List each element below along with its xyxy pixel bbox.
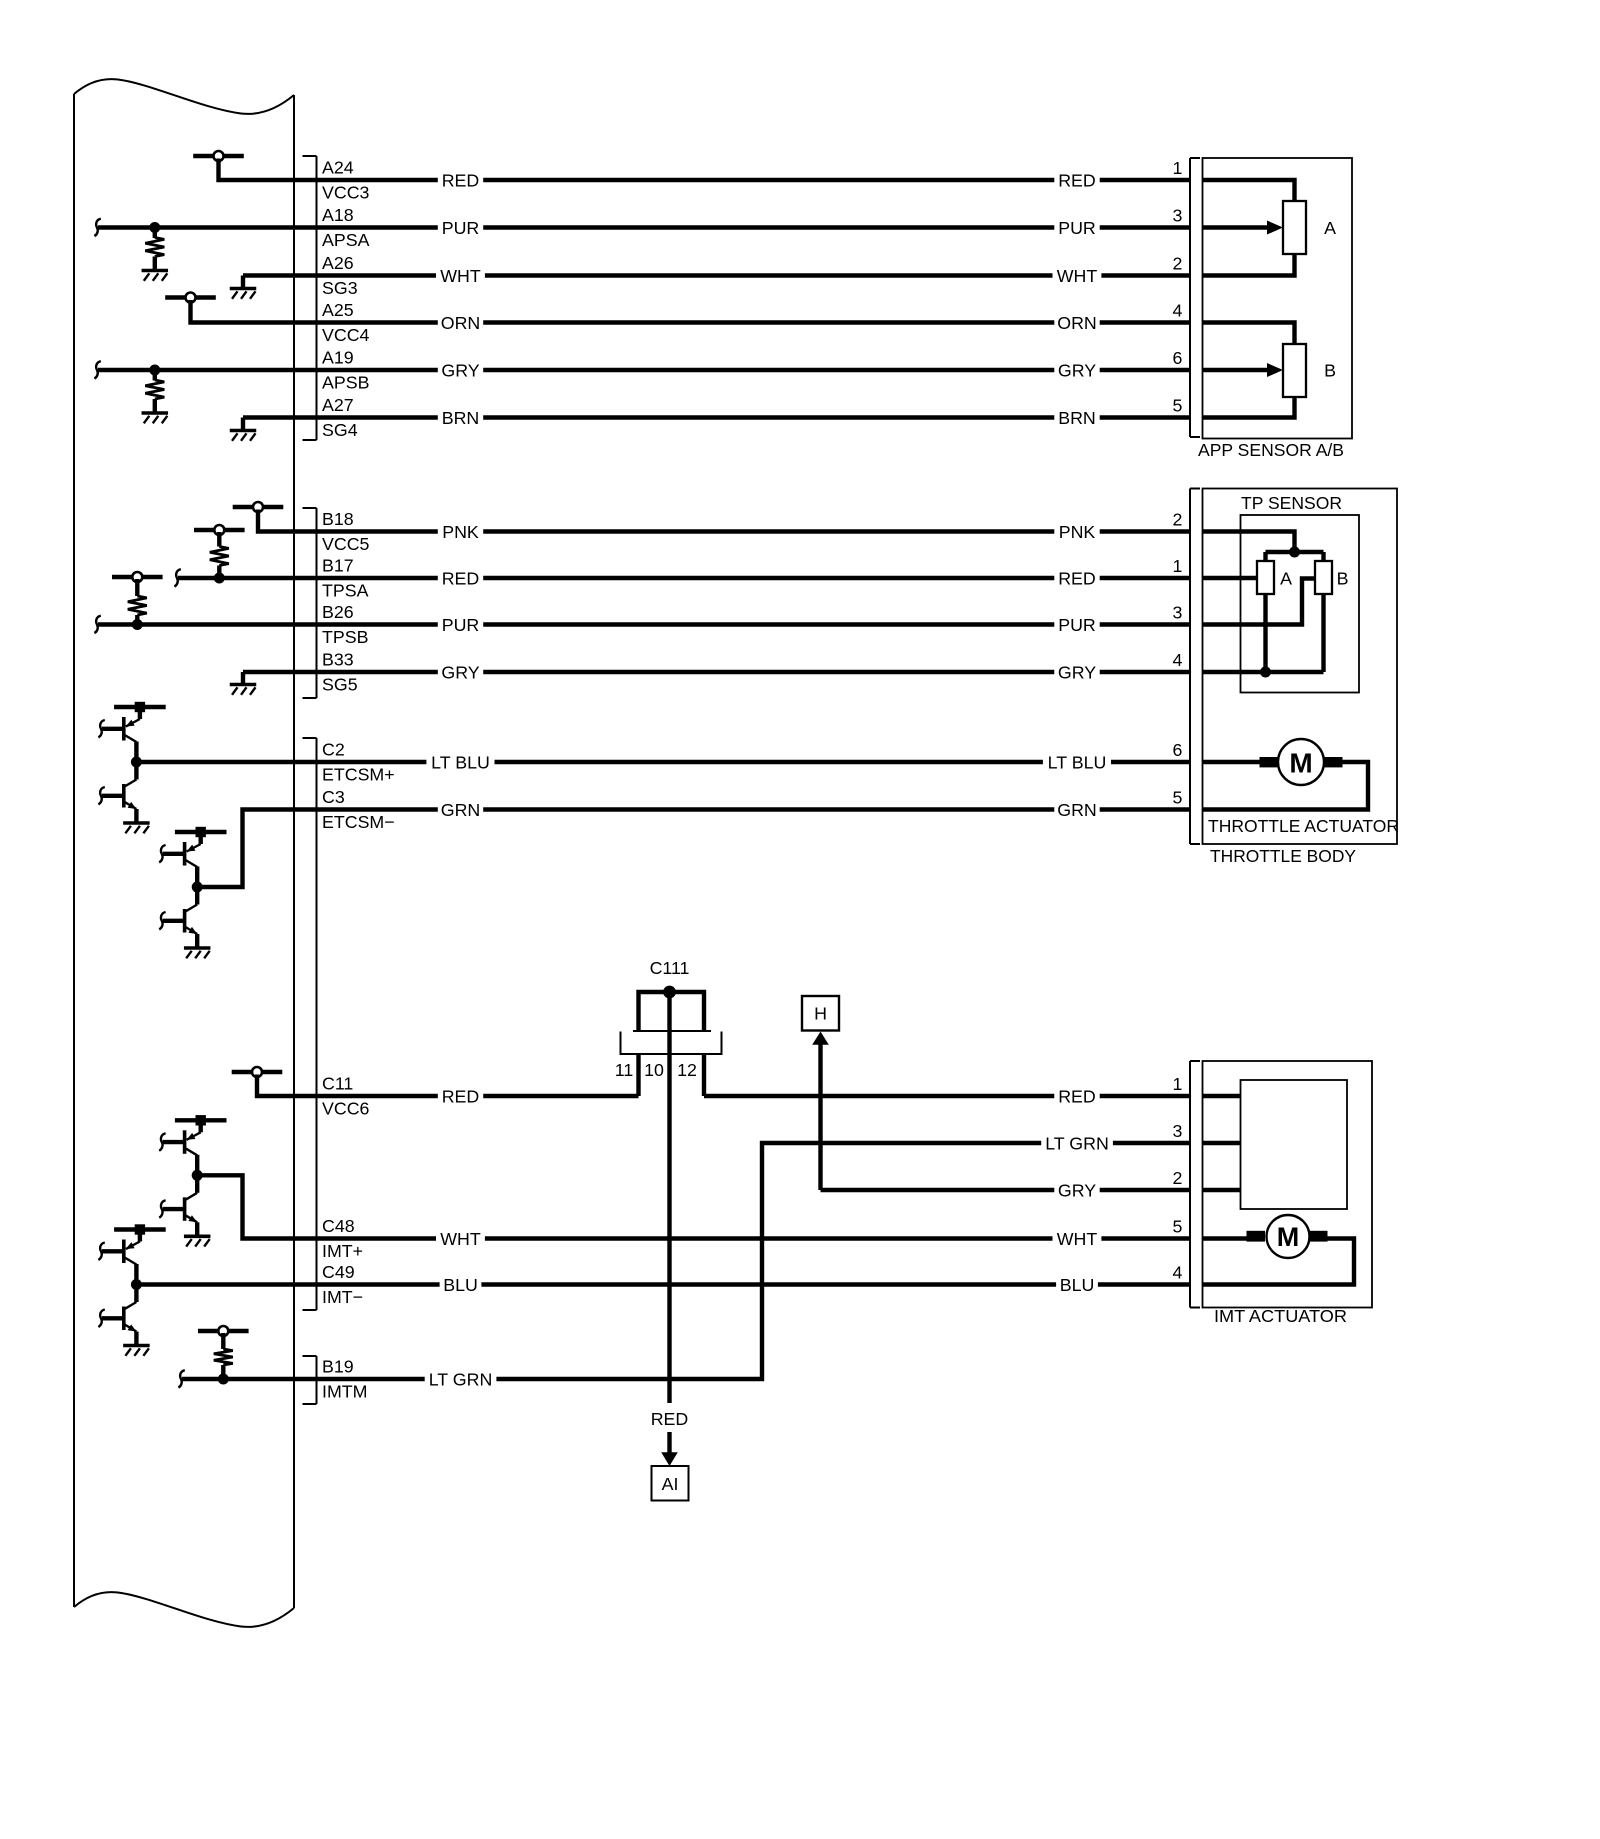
wire colour label BRN (left) <box>438 408 483 427</box>
RED wire, C111 pin 12 to IMT actuator <box>704 1094 1190 1098</box>
svg-text:4: 4 <box>1173 1263 1183 1283</box>
ECM connector A bracket <box>316 156 318 440</box>
svg-text:APSB: APSB <box>322 373 369 393</box>
svg-text:2: 2 <box>1173 254 1183 274</box>
stub from potentiometer B bottom <box>1321 593 1325 672</box>
BRN wire, ECM to APP sensor <box>294 415 1190 419</box>
svg-text:RED: RED <box>1058 568 1096 588</box>
base wire of Q3 <box>163 852 185 856</box>
svg-text:B19: B19 <box>322 1357 354 1377</box>
svg-text:VCC6: VCC6 <box>322 1099 370 1119</box>
svg-text:ETCSM+: ETCSM+ <box>322 765 395 785</box>
svg-text:VCC5: VCC5 <box>322 534 370 554</box>
wire colour label PUR (left) <box>438 615 483 634</box>
svg-text:LT GRN: LT GRN <box>1045 1133 1109 1153</box>
junction dot APSB <box>149 365 160 376</box>
svg-text:5: 5 <box>1173 788 1183 808</box>
svg-text:H: H <box>814 1004 827 1024</box>
wire colour label PUR (left) <box>438 218 483 237</box>
collector stem Q7 <box>134 1264 138 1285</box>
stub pin 3 <box>1203 1141 1241 1145</box>
svg-text:3: 3 <box>1173 206 1183 226</box>
svg-text:BRN: BRN <box>1058 408 1096 428</box>
PUR wire to TP wiper B <box>1203 579 1316 625</box>
junction dot TP top bus <box>1289 547 1300 558</box>
wire-break symbol TPSB <box>94 616 100 633</box>
svg-text:B: B <box>1324 361 1336 381</box>
wire colour label LT GRN (right) <box>1041 1134 1113 1153</box>
SG4 ground symbol <box>230 429 257 433</box>
svg-text:THROTTLE ACTUATOR: THROTTLE ACTUATOR <box>1208 816 1399 836</box>
ECM connector C bracket <box>316 738 318 1310</box>
base wire of Q6 <box>163 1207 185 1211</box>
svg-text:GRY: GRY <box>1058 662 1096 682</box>
PNK wire, ECM to TP sensor <box>294 529 1190 533</box>
RED wire, ECM to TP sensor <box>294 576 1190 580</box>
svg-text:WHT: WHT <box>440 266 481 286</box>
svg-text:APSA: APSA <box>322 230 370 250</box>
GRY wire to IMT actuator pin 2 <box>821 1188 1191 1192</box>
svg-text:ORN: ORN <box>1057 313 1097 333</box>
VCC pull-up for IMTM power symbol <box>198 1329 249 1333</box>
IMT- wire from driver to pin C49 <box>136 1282 294 1286</box>
svg-text:VCC3: VCC3 <box>322 183 370 203</box>
LT GRN wire, ECM B19 to IMT actuator pin 3 <box>294 1143 1190 1379</box>
svg-text:LT GRN: LT GRN <box>429 1369 493 1389</box>
junction dot IMTM <box>218 1374 229 1385</box>
wire pin4 to potentiometer B top <box>1203 323 1295 346</box>
wire colour label ORN (right) <box>1054 313 1099 332</box>
svg-text:1: 1 <box>1173 158 1183 178</box>
wire colour label ORN (left) <box>438 313 483 332</box>
ground of Q8 <box>123 1344 149 1348</box>
C111 pin 10 wire (down to AI) <box>667 992 671 1403</box>
GRN wire, ETCSM- to throttle actuator <box>294 807 1190 811</box>
base wire of Q1 <box>102 727 124 731</box>
junction dot (ETCSM-) <box>192 882 203 893</box>
VCC6 feed wire to pin C11 <box>257 1075 294 1097</box>
ground of Q4 <box>184 946 211 950</box>
svg-text:RED: RED <box>442 568 480 588</box>
collector stem Q1 <box>134 742 138 763</box>
svg-text:RED: RED <box>1058 1086 1096 1106</box>
IMT+ wire from driver to pin C48 <box>197 1175 294 1238</box>
wire-break symbol APSB <box>94 361 100 378</box>
SG3 ground symbol <box>230 287 257 291</box>
R2 top stem <box>153 370 157 381</box>
transistor Q1 (PNP, high side) <box>138 707 142 719</box>
wire colour label GRN (left) <box>438 800 483 819</box>
wire colour label GRY (right) <box>1054 1181 1099 1200</box>
wire colour label PUR (right) <box>1054 218 1099 237</box>
svg-text:IMTM: IMTM <box>322 1382 367 1402</box>
emitter stem Q8 <box>134 1332 138 1346</box>
svg-text:2: 2 <box>1173 510 1183 530</box>
pull-up resistor R3 (TPSA) <box>210 547 229 566</box>
transistor Q2 (NPN, low side) <box>134 762 138 780</box>
junction dot (ETCSM+) <box>131 757 142 768</box>
svg-text:VCC4: VCC4 <box>322 325 370 345</box>
svg-text:RED: RED <box>442 1086 480 1106</box>
stub pin 2 <box>1203 1188 1241 1192</box>
wire colour label RED (right) <box>1054 569 1099 588</box>
svg-text:THROTTLE BODY: THROTTLE BODY <box>1210 846 1356 866</box>
wire-break symbol IMTM <box>178 1370 184 1387</box>
B+ square (ETCSM+) <box>135 702 145 712</box>
svg-text:12: 12 <box>677 1060 697 1080</box>
svg-text:B33: B33 <box>322 650 354 670</box>
svg-text:M: M <box>1289 748 1312 779</box>
IMT actuator connector bracket <box>1189 1061 1191 1308</box>
throttle body connector bracket <box>1189 489 1191 845</box>
VCC4 feed wire to pin A25 <box>191 300 295 323</box>
IMTM input wire (ECM internal) <box>182 1377 294 1381</box>
pull-up resistor R4 (TPSB) <box>128 596 147 615</box>
stub to potentiometer A top <box>1263 552 1267 562</box>
wire colour label GRY (left) <box>438 663 483 682</box>
wire colour label RED (right) <box>1054 1087 1099 1106</box>
VCC6 power symbol <box>232 1070 283 1074</box>
LT BLU wire, ETCSM+ to throttle actuator <box>294 760 1190 764</box>
svg-text:A: A <box>1280 569 1292 589</box>
pull-up resistor R5 (IMTM) <box>214 1349 233 1365</box>
svg-text:GRY: GRY <box>441 662 479 682</box>
arrow down to AI <box>667 1432 671 1453</box>
svg-text:1: 1 <box>1173 1074 1183 1094</box>
svg-text:IMT+: IMT+ <box>322 1241 363 1261</box>
junction dot TPSB <box>132 619 143 630</box>
RED wire, ECM to APP sensor <box>294 178 1190 182</box>
svg-text:LT BLU: LT BLU <box>1048 752 1107 772</box>
wire colour label LT GRN (left) <box>425 1370 497 1389</box>
SG5 ground symbol <box>230 683 257 687</box>
IMT actuator control block <box>1241 1080 1348 1209</box>
svg-text:IMT ACTUATOR: IMT ACTUATOR <box>1214 1306 1347 1326</box>
svg-text:1: 1 <box>1173 556 1183 576</box>
wire colour label WHT (right) <box>1053 1229 1102 1248</box>
junction dot TPSA <box>214 573 225 584</box>
svg-text:PUR: PUR <box>442 218 480 238</box>
WHT wire, ECM C48 to IMT actuator <box>294 1236 1190 1240</box>
svg-text:B26: B26 <box>322 602 354 622</box>
svg-text:BRN: BRN <box>442 408 480 428</box>
svg-text:RED: RED <box>651 1409 689 1429</box>
svg-text:RED: RED <box>1058 170 1096 190</box>
transistor Q7 (PNP, high side) <box>138 1230 142 1242</box>
wire pin2 to potentiometer A bottom <box>1203 253 1295 276</box>
svg-text:SG4: SG4 <box>322 420 358 440</box>
svg-text:A18: A18 <box>322 205 354 225</box>
wire colour label RED (left) <box>438 569 483 588</box>
RED wire to TP wiper A <box>1203 576 1259 580</box>
emitter stem Q4 <box>195 934 199 948</box>
wire colour label PNK (right) <box>1054 522 1099 541</box>
R2 ground stem <box>153 399 157 412</box>
collector stem Q3 <box>195 867 199 888</box>
svg-text:PUR: PUR <box>1058 615 1096 635</box>
R1 ground stem <box>153 257 157 270</box>
junction dot (IMT+) <box>192 1170 203 1181</box>
SG3 ground wire <box>243 273 294 277</box>
base wire of Q2 <box>102 794 124 798</box>
IMT actuator motor M <box>1203 1236 1247 1240</box>
stub from potentiometer A bottom <box>1263 593 1267 672</box>
IMT actuator box <box>1203 1061 1373 1308</box>
RED wire, ECM C11 to C111 pin 11 <box>294 1094 639 1098</box>
wire pin5 to potentiometer B bottom <box>1203 396 1295 418</box>
SG4 ground wire <box>243 415 294 419</box>
B+ square (ETCSM-) <box>196 827 206 837</box>
svg-text:SG3: SG3 <box>322 278 358 298</box>
svg-text:PNK: PNK <box>442 522 479 542</box>
VCC pull-up for TPSB power symbol <box>112 575 163 579</box>
SG3 ground stem <box>241 276 245 289</box>
svg-text:SG5: SG5 <box>322 675 358 695</box>
VCC3 feed wire to pin A24 <box>219 159 295 181</box>
svg-text:PUR: PUR <box>442 615 480 635</box>
wire colour label BLU (right) <box>1056 1275 1098 1294</box>
AI reference box <box>652 1466 689 1501</box>
wiper arrow pin3 into potentiometer A <box>1203 225 1270 229</box>
svg-text:A27: A27 <box>322 395 354 415</box>
svg-text:2: 2 <box>1173 1168 1183 1188</box>
transistor Q3 (PNP, high side) <box>198 832 202 844</box>
wiper arrow pin6 into potentiometer B <box>1203 368 1270 372</box>
pull-down resistor R2 (APSB) <box>145 380 164 399</box>
B+ supply bar (IMT+) <box>175 1118 227 1122</box>
ground under R2 <box>142 411 169 415</box>
svg-text:C2: C2 <box>322 740 345 760</box>
base wire of Q7 <box>102 1249 124 1253</box>
wire colour label GRN (right) <box>1054 800 1099 819</box>
R4 stem to TPSB <box>135 615 139 625</box>
svg-text:A25: A25 <box>322 300 354 320</box>
C111 pin 11 lead <box>636 1054 640 1096</box>
VCC3 power symbol <box>193 154 244 158</box>
stub pin 1 <box>1203 1094 1241 1098</box>
wire colour label GRY (right) <box>1054 361 1099 380</box>
svg-text:5: 5 <box>1173 396 1183 416</box>
wire colour label RED (left) <box>438 1087 483 1106</box>
pull-up stem <box>221 1333 225 1349</box>
svg-text:IMT−: IMT− <box>322 1287 363 1307</box>
wire-break symbol APSA <box>94 219 100 236</box>
svg-text:C48: C48 <box>322 1216 355 1236</box>
ground of Q2 <box>123 821 149 825</box>
junction dot APSA <box>149 222 160 233</box>
C111 bridge junction dot <box>663 986 676 999</box>
svg-text:C49: C49 <box>322 1262 355 1282</box>
svg-text:4: 4 <box>1173 650 1183 670</box>
ETCSM+ wire from driver to pin C2 <box>136 760 294 764</box>
pull-up stem <box>217 532 221 547</box>
TP potentiometer A <box>1257 561 1274 594</box>
arrow up to H <box>812 1032 829 1045</box>
VCC5 feed wire to pin B18 <box>258 510 294 532</box>
svg-text:C111: C111 <box>650 958 690 978</box>
TP potentiometer B <box>1315 561 1332 594</box>
APP sensor connector bracket <box>1189 158 1191 437</box>
transistor Q8 (NPN, low side) <box>134 1285 138 1303</box>
emitter stem Q6 <box>195 1222 199 1236</box>
svg-text:GRN: GRN <box>1057 800 1097 820</box>
wire colour label WHT (left) <box>436 266 485 285</box>
wire colour label PNK (left) <box>438 522 483 541</box>
svg-text:GRY: GRY <box>1058 360 1096 380</box>
svg-text:4: 4 <box>1173 301 1183 321</box>
wire colour label PUR (right) <box>1054 615 1099 634</box>
svg-text:3: 3 <box>1173 603 1183 623</box>
collector stem Q5 <box>195 1155 199 1176</box>
TP sensor inner box <box>1241 515 1360 693</box>
C111 female housing <box>633 1030 711 1032</box>
svg-text:PNK: PNK <box>1059 522 1096 542</box>
svg-text:3: 3 <box>1173 1121 1183 1141</box>
potentiometer A (APP) <box>1283 201 1306 254</box>
TPSA input wire (ECM internal) <box>178 576 294 580</box>
ground under R1 <box>142 269 169 273</box>
svg-text:6: 6 <box>1173 348 1183 368</box>
VCC4 power symbol <box>165 295 216 299</box>
H reference box <box>802 996 839 1031</box>
svg-text:WHT: WHT <box>440 1229 481 1249</box>
pull-down resistor R1 (APSA) <box>145 238 164 257</box>
wire colour label RED (right) <box>1054 171 1099 190</box>
base wire of Q4 <box>163 919 185 923</box>
PUR wire, ECM to APP sensor <box>294 225 1190 229</box>
C111 male pin shell <box>639 992 705 1031</box>
wire colour label BLU (left) <box>440 1275 482 1294</box>
svg-text:AI: AI <box>662 1474 679 1494</box>
svg-text:APP SENSOR A/B: APP SENSOR A/B <box>1198 440 1344 460</box>
svg-text:TPSA: TPSA <box>322 581 369 601</box>
R5 stem to IMTM <box>221 1365 225 1379</box>
svg-text:GRY: GRY <box>441 360 479 380</box>
svg-text:ORN: ORN <box>441 313 481 333</box>
junction dot TP bottom bus <box>1260 667 1271 678</box>
wire pin1 to potentiometer A top <box>1203 180 1295 202</box>
throttle actuator motor M <box>1203 760 1260 764</box>
R1 top stem <box>153 228 157 239</box>
svg-text:WHT: WHT <box>1057 1229 1098 1249</box>
svg-text:BLU: BLU <box>443 1275 478 1295</box>
svg-text:C11: C11 <box>322 1074 353 1094</box>
svg-text:5: 5 <box>1173 1217 1183 1237</box>
APSA input wire (ECM internal) <box>98 225 294 229</box>
WHT wire, ECM to APP sensor <box>294 273 1190 277</box>
junction dot (IMT-) <box>131 1279 142 1290</box>
transistor Q4 (NPN, low side) <box>195 887 199 905</box>
pull-up stem <box>135 579 139 596</box>
svg-text:B18: B18 <box>322 509 354 529</box>
GRY wire, ECM to APP sensor <box>294 368 1190 372</box>
BLU wire, ECM C49 to IMT actuator <box>294 1282 1190 1286</box>
ETCSM- wire from driver to pin C3 <box>197 810 294 888</box>
svg-text:RED: RED <box>442 170 480 190</box>
C111 pin 12 lead <box>702 1054 706 1096</box>
ORN wire, ECM to APP sensor <box>294 320 1190 324</box>
base wire of Q5 <box>163 1140 185 1144</box>
wire colour label WHT (left) <box>436 1229 485 1248</box>
emitter stem Q2 <box>134 809 138 823</box>
svg-text:A19: A19 <box>322 348 354 368</box>
ground of Q6 <box>184 1235 211 1239</box>
B+ supply bar (IMT-) <box>114 1227 166 1231</box>
wire colour label LT BLU (left) <box>426 753 494 772</box>
throttle body box <box>1203 489 1398 845</box>
base wire of Q8 <box>102 1316 124 1320</box>
svg-text:11: 11 <box>615 1060 634 1080</box>
svg-text:B: B <box>1337 569 1349 589</box>
svg-text:6: 6 <box>1173 740 1183 760</box>
IMT motor return wire <box>1203 1239 1355 1285</box>
svg-text:ETCSM−: ETCSM− <box>322 812 395 832</box>
svg-text:TP SENSOR: TP SENSOR <box>1241 493 1342 513</box>
SG5 ground wire <box>243 670 294 674</box>
TP sensor bottom bus <box>1266 670 1324 674</box>
wire colour label BRN (right) <box>1054 408 1099 427</box>
stub to potentiometer B top <box>1321 552 1325 562</box>
transistor Q6 (NPN, low side) <box>195 1175 199 1193</box>
svg-text:LT BLU: LT BLU <box>431 752 490 772</box>
wire colour label LT BLU (right) <box>1043 753 1111 772</box>
wire colour label GRY (left) <box>438 361 483 380</box>
ECM module body (torn-edge band) <box>74 79 294 114</box>
wire colour label GRY (right) <box>1054 663 1099 682</box>
wire-break symbol TPSA <box>174 569 180 586</box>
SG4 ground stem <box>241 418 245 431</box>
ECM connector B19 bracket <box>316 1356 318 1404</box>
B+ square (IMT-) <box>135 1224 145 1234</box>
svg-text:A26: A26 <box>322 253 354 273</box>
R3 stem to TPSA <box>217 566 221 579</box>
svg-text:BLU: BLU <box>1060 1275 1095 1295</box>
svg-text:A: A <box>1324 218 1336 238</box>
PUR wire, ECM to TP sensor <box>294 622 1190 626</box>
APP sensor box <box>1203 158 1353 439</box>
TPSB input wire (ECM internal) <box>98 622 294 626</box>
svg-text:GRN: GRN <box>441 800 481 820</box>
svg-text:M: M <box>1277 1222 1300 1252</box>
SG5 ground stem <box>241 672 245 684</box>
wire colour label RED (left) <box>438 171 483 190</box>
svg-text:TPSB: TPSB <box>322 627 368 647</box>
VCC pull-up for TPSA power symbol <box>194 528 245 532</box>
TP sensor top bus <box>1266 550 1324 554</box>
GRY wire to TP sensor low side <box>1203 670 1266 674</box>
svg-text:C3: C3 <box>322 787 345 807</box>
svg-text:GRY: GRY <box>1058 1180 1096 1200</box>
svg-text:A24: A24 <box>322 158 354 178</box>
svg-text:WHT: WHT <box>1057 266 1098 286</box>
B+ supply bar (ETCSM+) <box>114 705 166 709</box>
throttle motor return wire <box>1203 762 1369 810</box>
wire colour label WHT (right) <box>1053 266 1102 285</box>
transistor Q5 (PNP, high side) <box>198 1120 202 1132</box>
ECM connector B bracket <box>316 508 318 698</box>
svg-text:10: 10 <box>644 1060 664 1080</box>
potentiometer B (APP) <box>1283 344 1306 397</box>
PNK wire to TP sensor common <box>1203 532 1295 553</box>
B+ supply bar (ETCSM-) <box>175 830 227 834</box>
svg-text:PUR: PUR <box>1058 218 1096 238</box>
svg-text:B17: B17 <box>322 556 354 576</box>
VCC5 power symbol <box>233 505 284 509</box>
B+ square (IMT+) <box>196 1115 206 1125</box>
GRY wire, ECM to TP sensor <box>294 670 1190 674</box>
APSB input wire (ECM internal) <box>98 368 294 372</box>
